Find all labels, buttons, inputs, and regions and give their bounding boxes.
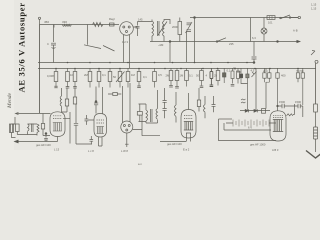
svg-text:0,1: 0,1 bbox=[143, 75, 147, 79]
fuse box 101 bbox=[267, 16, 275, 20]
hanging resistors row bbox=[54, 68, 304, 111]
svg-text:6,3: 6,3 bbox=[252, 36, 256, 40]
vertical link x186 bbox=[186, 32, 188, 62]
tube V3 stems bbox=[99, 137, 103, 146]
svg-text:~Md: ~Md bbox=[158, 43, 164, 47]
resistor r4 bbox=[89, 68, 91, 72]
left bus corner to audio bbox=[16, 113, 51, 115]
resistor pair rp1 bbox=[263, 73, 266, 78]
vertical link x170 bbox=[169, 42, 171, 63]
tube V1 stems bbox=[124, 35, 130, 68]
svg-text:1,15: 1,15 bbox=[311, 3, 317, 7]
tube V4 round envelope bbox=[121, 121, 133, 133]
output transformer zigzag bbox=[37, 124, 39, 133]
det smudge bbox=[241, 99, 246, 103]
IFT2 winding right bbox=[156, 104, 158, 123]
switch S2 bbox=[217, 38, 226, 42]
svg-text:a·n: a·n bbox=[138, 163, 142, 166]
wire V5 grid bbox=[188, 93, 190, 110]
svg-text:C: C bbox=[47, 42, 49, 46]
det wire bbox=[278, 106, 303, 117]
caps x213 bbox=[212, 96, 216, 112]
svg-text:200: 200 bbox=[263, 69, 268, 73]
resistor r15 bbox=[217, 68, 219, 71]
wire tube to IFT bbox=[133, 20, 152, 28]
caps 1500 b bbox=[298, 104, 300, 108]
resistor r1 bbox=[55, 68, 57, 72]
svg-text:50: 50 bbox=[196, 74, 199, 78]
tube V5 envelope bbox=[181, 110, 196, 139]
resistor pair rp3 bbox=[296, 73, 299, 78]
cathode cap bbox=[95, 101, 97, 103]
resistor r8 bbox=[127, 68, 129, 72]
terminal dots bbox=[194, 17, 196, 19]
svg-text:ges HF=100: ges HF=100 bbox=[167, 142, 182, 146]
variable arrow bbox=[158, 22, 167, 36]
capacitor 145 bbox=[136, 22, 140, 37]
resistor r5 bbox=[98, 68, 100, 72]
enclosure battery box bbox=[219, 119, 277, 141]
paper background bbox=[0, 0, 320, 170]
cap dark sq2 bbox=[240, 74, 243, 78]
coil x176 bbox=[175, 92, 177, 123]
wire speaker line bbox=[14, 117, 16, 124]
detector diodes bbox=[240, 110, 270, 112]
small box mid bbox=[113, 93, 118, 96]
cap at power drop bbox=[252, 42, 257, 63]
resistor r11 bbox=[170, 68, 172, 71]
output transformer coil bbox=[28, 124, 34, 133]
small box det bbox=[262, 109, 266, 114]
resistor rp2 bbox=[276, 73, 279, 78]
svg-text:L 13: L 13 bbox=[54, 148, 60, 152]
svg-text:E a 2: E a 2 bbox=[183, 148, 190, 152]
choke box on antenna bbox=[314, 104, 318, 112]
switch S3 bbox=[281, 15, 299, 19]
tube V1 envelope bbox=[120, 22, 134, 36]
wire h1 bbox=[62, 112, 71, 144]
svg-text:Mende: Mende bbox=[7, 92, 13, 109]
wire left vertical bus bbox=[39, 25, 41, 114]
svg-text:35: 35 bbox=[233, 67, 236, 71]
svg-text:330: 330 bbox=[62, 20, 67, 24]
antenna terminal bbox=[315, 60, 318, 63]
svg-text:101: 101 bbox=[268, 21, 273, 25]
grid cap left of V3 bbox=[85, 115, 95, 125]
svg-text:145: 145 bbox=[138, 18, 143, 22]
svg-text:1500: 1500 bbox=[295, 100, 301, 104]
svg-text:0,1: 0,1 bbox=[189, 74, 193, 78]
small box b1 bbox=[65, 99, 68, 106]
resistor r2 bbox=[67, 68, 69, 72]
svg-text:A·B: A·B bbox=[293, 29, 298, 33]
small box b2 bbox=[73, 97, 76, 104]
resistor r9 bbox=[138, 68, 140, 72]
cap square bbox=[223, 73, 226, 77]
svg-text:25: 25 bbox=[214, 74, 217, 78]
svg-text:450: 450 bbox=[44, 20, 49, 24]
tube V2 stem bbox=[57, 137, 59, 142]
svg-text:L c 8: L c 8 bbox=[88, 149, 94, 153]
trimmer caps bbox=[186, 22, 193, 33]
svg-text:L W 8: L W 8 bbox=[121, 149, 128, 153]
cap sq3 bbox=[246, 74, 249, 78]
title AE35/6V Autosuper (vertical) bbox=[17, 2, 27, 92]
caps x164 bbox=[163, 88, 167, 118]
resistor r13 bbox=[186, 68, 188, 71]
resistor zigzag R1 bbox=[93, 23, 103, 27]
battery 6V bbox=[233, 120, 269, 127]
coil L330 bbox=[63, 25, 72, 27]
input terminal bbox=[39, 20, 41, 25]
power vertical bbox=[250, 18, 252, 42]
svg-text:1 2 3: 1 2 3 bbox=[122, 40, 128, 44]
resistor r10 bbox=[154, 68, 156, 72]
rail D bbox=[38, 68, 316, 70]
speaker magnet box bbox=[10, 124, 14, 133]
svg-text:0,008: 0,008 bbox=[47, 74, 54, 78]
tuning cap C bbox=[51, 25, 56, 63]
IFT1 winding left bbox=[152, 21, 154, 42]
band switch S1 bbox=[84, 25, 115, 52]
IFT2 winding left bbox=[146, 104, 148, 123]
svg-text:A B 3: A B 3 bbox=[272, 148, 279, 152]
ladder segments bbox=[314, 127, 318, 139]
terminal circle bbox=[298, 16, 300, 18]
audio line V5 bbox=[160, 141, 186, 143]
resistor r14 bbox=[201, 68, 203, 71]
electrolytic cap bbox=[210, 68, 214, 87]
resistor r12 bbox=[176, 68, 178, 71]
tube V1 electrodes bbox=[123, 26, 125, 28]
resistor 2000 box bbox=[178, 22, 182, 35]
svg-text:10: 10 bbox=[70, 73, 73, 77]
IFT1 top wire bbox=[164, 20, 170, 25]
svg-text:6 V: 6 V bbox=[248, 126, 252, 130]
cap to arrow line bbox=[45, 133, 47, 135]
wire top rail left bbox=[40, 24, 120, 26]
IFT1 core bbox=[158, 21, 160, 36]
component Regl box bbox=[110, 23, 115, 26]
tube V6 output envelope bbox=[270, 111, 286, 141]
IFT1 winding right bbox=[163, 21, 165, 42]
svg-text:400: 400 bbox=[281, 74, 286, 78]
svg-text:1,15: 1,15 bbox=[311, 7, 317, 11]
osc vertical bbox=[194, 18, 196, 42]
svg-text:Regl: Regl bbox=[109, 17, 115, 21]
tube V3 envelope bbox=[94, 114, 107, 138]
zigzag det bbox=[287, 104, 295, 116]
resistor r6 bbox=[109, 68, 111, 72]
vertical link x194 bbox=[194, 42, 196, 63]
ground chevron bbox=[306, 151, 320, 159]
svg-text:2000: 2000 bbox=[172, 25, 178, 29]
svg-text:ges HF=100: ges HF=100 bbox=[36, 143, 51, 147]
IFT2 connections bbox=[139, 122, 158, 124]
pilot lamp bbox=[263, 18, 265, 29]
svg-text:0,1: 0,1 bbox=[102, 73, 106, 77]
caps 1500 a bbox=[282, 104, 284, 108]
wire det verticals bbox=[256, 68, 266, 111]
svg-text:0,1: 0,1 bbox=[227, 69, 231, 73]
svg-text:ges HF 1000: ges HF 1000 bbox=[250, 143, 266, 147]
junction dot bbox=[277, 41, 279, 43]
svg-text:4,5: 4,5 bbox=[251, 69, 255, 73]
arrow line bbox=[15, 141, 58, 143]
brand Mende (vertical script) bbox=[7, 92, 13, 109]
rail C bbox=[38, 62, 254, 64]
resistor r16 bbox=[232, 68, 234, 71]
left small coil bbox=[60, 96, 61, 106]
stem cap bbox=[90, 136, 94, 144]
speaker coil box bbox=[16, 124, 20, 132]
svg-text:235: 235 bbox=[229, 42, 234, 46]
trimmer arrow bbox=[252, 72, 257, 78]
grid feed box bbox=[41, 124, 44, 130]
svg-text:1500: 1500 bbox=[279, 100, 285, 104]
svg-text:0,5: 0,5 bbox=[158, 73, 162, 77]
wire stub bbox=[53, 25, 55, 28]
svg-text:50·50: 50·50 bbox=[297, 69, 304, 73]
top right rail bbox=[190, 17, 298, 19]
wires audio bbox=[12, 132, 38, 138]
junction dots rail D bbox=[55, 62, 299, 70]
small box x199 bbox=[197, 100, 200, 107]
potentiometer r7 bbox=[119, 68, 121, 72]
cap c mid bbox=[137, 112, 142, 116]
svg-text:AE 35/6 V Autosuper: AE 35/6 V Autosuper bbox=[17, 2, 27, 92]
tube V2 anode hatch bbox=[53, 123, 62, 132]
resistor r17 bbox=[237, 68, 239, 71]
antenna feed line bbox=[315, 63, 317, 104]
rail B bbox=[150, 41, 299, 43]
tube V3 anode hatch bbox=[97, 127, 105, 134]
coil x205 bbox=[204, 96, 206, 118]
resistor r3 bbox=[74, 68, 76, 72]
rail B arrowhead bbox=[297, 40, 301, 43]
tiny value labels bbox=[36, 3, 317, 167]
svg-text:50: 50 bbox=[113, 75, 116, 79]
tube V2 oval envelope bbox=[50, 112, 65, 137]
cap right of V2 bbox=[74, 104, 92, 144]
